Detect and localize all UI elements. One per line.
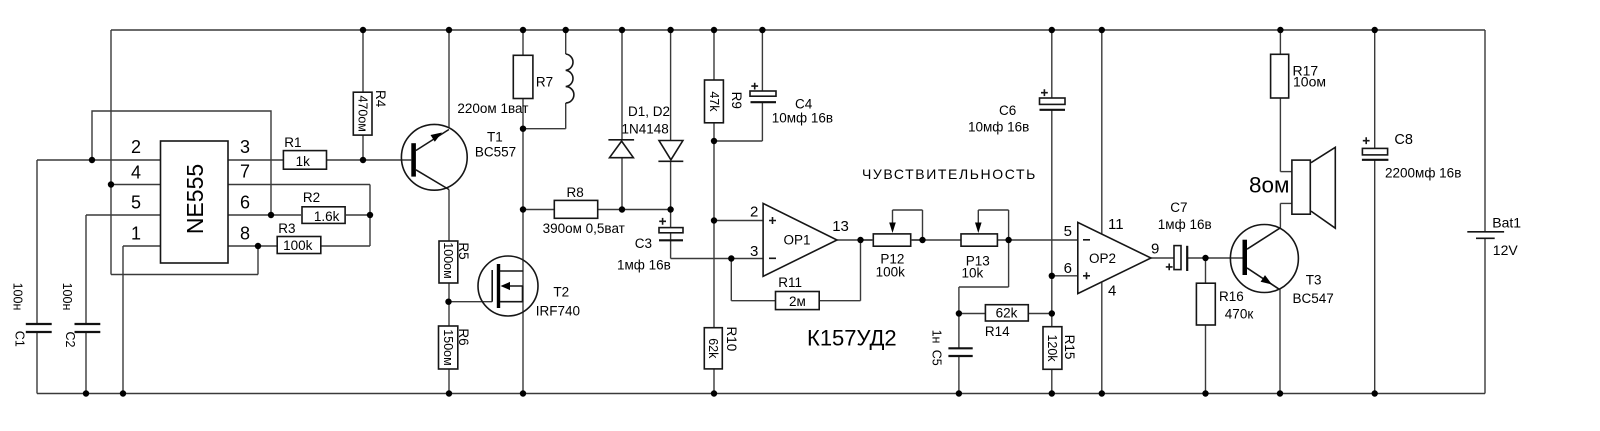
svg-text:3: 3	[240, 137, 250, 157]
svg-text:R15: R15	[1062, 335, 1077, 360]
op-amp OP1	[763, 203, 837, 276]
wire T3 emitter to ground	[1279, 289, 1281, 393]
svg-text:T1: T1	[487, 129, 503, 144]
svg-text:IRF740: IRF740	[536, 304, 580, 319]
wire R1 to T1 base	[326, 159, 411, 161]
svg-text:Bat1: Bat1	[1492, 214, 1521, 230]
wire speaker top terminal	[1280, 171, 1292, 173]
svg-text:11: 11	[1108, 216, 1124, 233]
transistor T2 drain tap	[500, 270, 523, 272]
svg-text:D1, D2: D1, D2	[628, 104, 670, 119]
wire battery column	[1484, 30, 1486, 394]
capacitor C4	[751, 83, 758, 90]
wire NE555 pin6 to R2	[228, 214, 301, 216]
capacitor C1	[26, 324, 52, 332]
wire speaker bottom terminal to T3 collector	[1280, 203, 1292, 227]
svg-text:OP1: OP1	[784, 233, 811, 248]
transistor T3 emitter line	[1247, 268, 1279, 289]
wire C1 column	[36, 160, 38, 394]
svg-text:13: 13	[832, 218, 849, 235]
svg-text:7: 7	[240, 162, 250, 182]
svg-text:1мф 16в: 1мф 16в	[1158, 217, 1212, 232]
svg-text:2200мф 16в: 2200мф 16в	[1385, 165, 1461, 180]
svg-text:6: 6	[240, 193, 250, 213]
wire R17 stubs	[1279, 30, 1281, 172]
svg-text:1N4148: 1N4148	[622, 122, 669, 137]
svg-text:R10: R10	[724, 327, 739, 352]
svg-text:100k: 100k	[876, 265, 906, 280]
svg-text:R7: R7	[536, 75, 553, 90]
diode D1	[608, 139, 634, 141]
svg-text:C7: C7	[1170, 200, 1187, 215]
wire C3 column to OP1 inverting input	[671, 210, 764, 259]
wire OP2 non-inverting input	[1052, 275, 1078, 277]
svg-text:2: 2	[131, 137, 141, 157]
wire NE555 pin1 to ground	[123, 246, 161, 394]
svg-text:5: 5	[1064, 223, 1072, 240]
svg-text:ЧУВСТВИТЕЛЬНОСТЬ: ЧУВСТВИТЕЛЬНОСТЬ	[862, 166, 1037, 182]
wire D2 column	[670, 30, 672, 210]
wire R3 right	[321, 245, 370, 247]
svg-text:C6: C6	[999, 103, 1016, 118]
svg-text:NE555: NE555	[182, 164, 208, 234]
inductor L1	[566, 54, 574, 103]
transistor T2 source tap	[500, 301, 523, 303]
resistor R3	[277, 237, 321, 254]
resistor R6	[439, 326, 458, 369]
transistor T2 channel bar	[497, 264, 500, 308]
svg-text:C1: C1	[13, 331, 27, 347]
resistor R1	[283, 151, 326, 170]
resistor R11	[776, 292, 820, 310]
wire pins 2-6 tie	[92, 111, 271, 215]
junction dots ground rail	[83, 390, 1378, 396]
wire R8 line	[523, 209, 671, 211]
svg-text:1.6k: 1.6k	[314, 209, 340, 224]
svg-text:62k: 62k	[996, 306, 1018, 321]
wire R2 right	[346, 214, 370, 216]
op-amp OP2	[1078, 222, 1151, 293]
svg-text:8: 8	[240, 224, 250, 244]
battery Bat1	[1467, 231, 1504, 233]
wire R5 to gate node	[448, 283, 450, 302]
wire NE555 pin7 to R2/R3 junction	[228, 185, 370, 247]
wire R9 column	[713, 30, 715, 141]
svg-text:4: 4	[131, 163, 141, 183]
IC U1 NE555 body	[161, 141, 229, 263]
transistor T2 body tap	[510, 286, 523, 302]
svg-text:1н: 1н	[929, 330, 943, 344]
transistor T2 body arrow	[501, 282, 511, 290]
transistor T3 BC547 circle	[1230, 225, 1298, 293]
svg-text:R6: R6	[456, 328, 471, 345]
resistor R8	[554, 200, 597, 218]
svg-text:3: 3	[750, 243, 758, 260]
svg-text:T2: T2	[553, 285, 569, 300]
svg-text:R4: R4	[373, 90, 388, 108]
wire R11 right riser	[819, 240, 860, 301]
wire R9/C4 node down to OP1 + and R10	[713, 141, 715, 394]
wire VCC top rail	[111, 29, 1485, 31]
capacitor C7	[1174, 246, 1181, 270]
wire ground bottom rail	[37, 393, 1485, 395]
wire VCC left drop to pin4 and pin8 link	[111, 30, 258, 275]
capacitor C6	[1041, 89, 1048, 96]
svg-text:R16: R16	[1219, 289, 1244, 304]
wire R7 top stub	[522, 30, 524, 55]
svg-text:C3: C3	[635, 236, 652, 251]
svg-text:470ом: 470ом	[356, 95, 370, 131]
wire R16 column	[1205, 258, 1207, 394]
svg-text:47k: 47k	[707, 91, 721, 112]
transistor T1 emitter arrow	[431, 133, 443, 142]
svg-text:12V: 12V	[1493, 242, 1519, 258]
svg-text:T3: T3	[1306, 273, 1322, 288]
speaker	[1292, 160, 1310, 214]
svg-text:10мф 16в: 10мф 16в	[968, 120, 1029, 135]
wire NE555 pin5 stub	[86, 214, 161, 216]
transistor T3 emitter arrow	[1261, 275, 1272, 284]
wire P12 to P13	[911, 239, 961, 241]
wire R6 to ground	[448, 369, 450, 394]
wire NE555 pin4 stub	[111, 184, 161, 186]
wire T1 collector to R5	[448, 190, 450, 242]
svg-text:1: 1	[131, 224, 141, 244]
wire OP1 output to P12	[837, 239, 873, 241]
svg-text:C8: C8	[1394, 132, 1413, 148]
junction dots top rail	[360, 27, 1378, 33]
svg-text:R1: R1	[284, 135, 301, 150]
wire R11 left riser	[731, 259, 775, 301]
wire R15 to ground	[1051, 369, 1053, 393]
capacitor C8	[1363, 137, 1370, 144]
svg-text:BC557: BC557	[475, 145, 516, 160]
transistor T2 IRF740 circle	[478, 256, 538, 316]
svg-text:К157УД2: К157УД2	[807, 325, 897, 350]
resistor R5	[439, 241, 458, 283]
resistor R2	[302, 207, 345, 224]
svg-text:470к: 470к	[1225, 306, 1254, 321]
wire OP2 power pin 11	[1101, 30, 1103, 234]
wire C8 column	[1374, 30, 1376, 394]
wire gate lead	[449, 301, 493, 303]
resistor R17	[1271, 54, 1289, 98]
svg-text:R8: R8	[567, 185, 584, 200]
svg-text:1k: 1k	[296, 154, 311, 169]
svg-text:OP2: OP2	[1089, 251, 1116, 266]
wire NE555 pin2 stub	[37, 159, 161, 161]
capacitor C2	[75, 324, 101, 332]
wire inductor stubs	[523, 30, 566, 129]
svg-text:62k: 62k	[706, 338, 720, 359]
svg-text:C5: C5	[929, 350, 943, 366]
svg-text:R14: R14	[985, 324, 1010, 339]
wire C5 column	[958, 314, 960, 394]
svg-text:R5: R5	[456, 242, 471, 259]
svg-text:BC547: BC547	[1293, 291, 1334, 306]
svg-text:4: 4	[1108, 283, 1116, 300]
svg-text:R3: R3	[278, 221, 295, 236]
capacitor C5	[948, 348, 972, 356]
wire OP1 non-inverting input	[714, 220, 763, 222]
transistor T3 collector line	[1247, 228, 1280, 249]
svg-text:10k: 10k	[962, 266, 984, 281]
svg-text:2: 2	[750, 204, 758, 221]
svg-text:C2: C2	[63, 332, 77, 348]
resistor R9	[705, 80, 724, 123]
transistor T1 emitter line	[416, 130, 449, 151]
svg-text:150ом: 150ом	[441, 329, 455, 365]
resistor R14	[985, 305, 1028, 321]
svg-text:100н: 100н	[60, 283, 74, 311]
wire T1 emitter to VCC	[448, 30, 450, 129]
svg-text:100ом: 100ом	[441, 242, 455, 278]
resistor R16	[1196, 283, 1215, 325]
wire OP2 power pin 4	[1101, 282, 1103, 393]
svg-text:5: 5	[131, 193, 141, 213]
wire OP2 output to C7	[1151, 257, 1174, 259]
transistor T3 base bar	[1243, 240, 1248, 275]
svg-text:10мф 16в: 10мф 16в	[772, 111, 833, 126]
transistor T1 collector line	[416, 170, 449, 190]
svg-text:9: 9	[1151, 241, 1159, 258]
resistor R15	[1043, 327, 1062, 370]
diode D2	[659, 141, 683, 160]
wire P12 wiper bracket	[893, 210, 923, 240]
capacitor C3	[659, 218, 666, 225]
junction dots mid circuit	[89, 126, 1209, 317]
svg-text:R2: R2	[303, 190, 320, 205]
wire R7 bottom / T2 drain-source column	[522, 99, 524, 394]
svg-text:220ом 1ват: 220ом 1ват	[457, 101, 528, 116]
svg-text:390ом 0,5ват: 390ом 0,5ват	[543, 221, 625, 236]
svg-text:C4: C4	[795, 97, 813, 112]
wire gate node to R6	[448, 302, 450, 326]
svg-text:100н: 100н	[10, 283, 24, 311]
wire NE555 pin8 to R3	[228, 245, 277, 247]
transistor T1 BC557 circle	[401, 124, 467, 190]
transistor T2 gate bar	[491, 270, 493, 302]
svg-text:8ом: 8ом	[1249, 172, 1290, 197]
svg-text:R11: R11	[778, 275, 802, 290]
resistor R4	[353, 92, 372, 135]
wire R14 stubs	[959, 313, 1052, 315]
wire P13 wiper bracket	[978, 210, 1008, 240]
transistor T1 base bar	[411, 143, 416, 176]
wire C4 column	[714, 30, 762, 141]
wire NE555 pin3 to R1	[228, 159, 283, 161]
wire D1 column	[621, 30, 623, 210]
resistor R10	[704, 328, 722, 369]
wire C6 column	[1051, 30, 1053, 327]
potentiometer P12	[873, 234, 910, 246]
wire C7 to T3 base	[1187, 257, 1243, 259]
svg-text:2м: 2м	[789, 294, 806, 309]
svg-text:R9: R9	[729, 92, 744, 109]
svg-text:100k: 100k	[283, 238, 313, 253]
svg-text:120k: 120k	[1045, 334, 1059, 362]
potentiometer P13	[961, 234, 997, 246]
svg-text:6: 6	[1064, 260, 1072, 277]
wire P13 to OP2 inverting input	[997, 239, 1077, 241]
wire C2 column	[85, 215, 87, 394]
resistor R7	[513, 55, 533, 98]
wire R4 stubs	[362, 30, 364, 160]
svg-text:1мф 16в: 1мф 16в	[617, 258, 671, 273]
wire P13 node jog down to C5/R14	[959, 240, 1009, 314]
svg-text:10ом: 10ом	[1293, 73, 1326, 89]
